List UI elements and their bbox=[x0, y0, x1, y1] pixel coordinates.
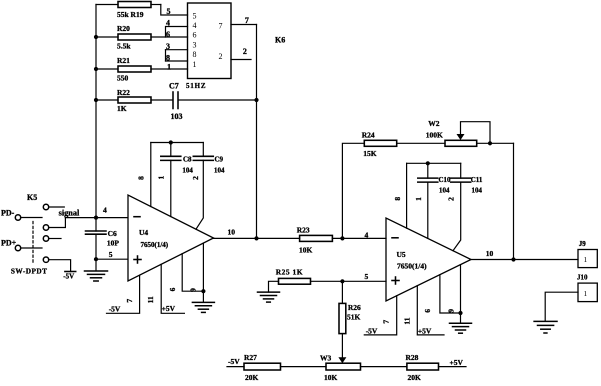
wire R19 to K6 pin5 bbox=[161, 5, 188, 16]
wire U5 pin6 bbox=[440, 275, 461, 313]
ground U4 bbox=[192, 302, 214, 312]
resistor R26 bbox=[339, 281, 361, 358]
op-amp U4 bbox=[128, 195, 214, 281]
ground U5 bbox=[450, 323, 472, 333]
dashed switch link bbox=[32, 222, 34, 264]
svg-text:+5V: +5V bbox=[418, 327, 432, 336]
svg-text:-5V: -5V bbox=[366, 327, 378, 336]
svg-text:1K: 1K bbox=[117, 104, 127, 113]
svg-text:R24: R24 bbox=[362, 130, 375, 139]
svg-text:J10: J10 bbox=[577, 274, 588, 282]
capacitor C7 bbox=[169, 82, 183, 122]
ground J10 bbox=[534, 321, 557, 333]
potentiometer W2 bbox=[426, 119, 514, 146]
svg-text:9: 9 bbox=[188, 288, 197, 292]
svg-text:C8: C8 bbox=[183, 156, 192, 164]
svg-text:2: 2 bbox=[447, 197, 456, 201]
svg-text:7650(1/4): 7650(1/4) bbox=[141, 241, 169, 249]
svg-text:8: 8 bbox=[193, 50, 197, 59]
svg-text:2: 2 bbox=[243, 47, 247, 56]
wire U5 pin7 to -5V bbox=[364, 296, 396, 336]
wire U5 output bbox=[471, 259, 578, 261]
svg-text:8: 8 bbox=[393, 197, 402, 201]
svg-text:1: 1 bbox=[414, 197, 423, 201]
svg-text:R23: R23 bbox=[297, 226, 310, 235]
node rail junction bbox=[169, 140, 173, 144]
switch contact c4 to -5V bbox=[43, 257, 75, 281]
node C7 junction bbox=[254, 98, 258, 102]
terminal PD- bbox=[1, 209, 42, 221]
svg-text:-5V: -5V bbox=[109, 305, 121, 314]
resistor R28 bbox=[361, 353, 467, 382]
svg-text:R28: R28 bbox=[406, 353, 419, 362]
svg-text:K5: K5 bbox=[27, 193, 37, 202]
svg-text:2: 2 bbox=[191, 176, 200, 180]
ground R25 bbox=[258, 281, 280, 302]
node pin6 pin9 junction bbox=[201, 289, 205, 293]
wire U4 pin7 to -5V bbox=[107, 275, 140, 313]
wire K6 pin3 to pin8 jog bbox=[165, 50, 167, 61]
wire signal to U4 inverting input bbox=[65, 217, 127, 219]
resistor R21 bbox=[96, 56, 188, 83]
wire U4 output bbox=[214, 237, 300, 239]
wire to U4 noninverting input bbox=[96, 258, 128, 260]
svg-text:104: 104 bbox=[182, 167, 193, 175]
svg-text:R21: R21 bbox=[117, 56, 130, 65]
switch contact c2 bbox=[43, 218, 65, 231]
svg-text:R25 1K: R25 1K bbox=[276, 267, 303, 276]
capacitor C9 bbox=[193, 143, 225, 230]
wiper arrow onto W3 bbox=[338, 357, 346, 363]
svg-text:104: 104 bbox=[472, 186, 483, 194]
svg-text:5.5k: 5.5k bbox=[117, 42, 131, 51]
svg-text:55k R19: 55k R19 bbox=[117, 10, 144, 19]
svg-text:4: 4 bbox=[365, 231, 369, 240]
svg-text:6: 6 bbox=[166, 30, 170, 39]
svg-text:5: 5 bbox=[167, 7, 171, 16]
svg-text:C6: C6 bbox=[108, 229, 117, 238]
svg-text:J9: J9 bbox=[579, 240, 587, 248]
svg-text:6: 6 bbox=[423, 309, 432, 313]
capacitor C6 bbox=[86, 229, 120, 248]
W2 wiper arrow bbox=[457, 134, 465, 140]
resistor R22 bbox=[96, 88, 172, 113]
connector J10 bbox=[577, 274, 597, 302]
svg-text:5: 5 bbox=[365, 272, 369, 281]
svg-text:5: 5 bbox=[109, 250, 113, 259]
svg-text:10P: 10P bbox=[107, 239, 120, 248]
wire left feedback bus vertical bbox=[95, 5, 97, 232]
svg-text:-5V: -5V bbox=[228, 357, 240, 366]
wire U5 pin9 bbox=[460, 265, 462, 324]
wire feedback up from R23 node bbox=[342, 143, 364, 238]
svg-text:8: 8 bbox=[136, 176, 145, 180]
svg-text:3: 3 bbox=[166, 42, 170, 51]
node rail junction bbox=[426, 161, 430, 165]
svg-text:W3: W3 bbox=[320, 354, 332, 363]
svg-text:R22: R22 bbox=[117, 88, 130, 97]
node pin6 pin9 junction bbox=[458, 311, 462, 315]
svg-text:5: 5 bbox=[193, 11, 197, 20]
svg-text:2: 2 bbox=[219, 52, 223, 61]
capacitor C11 bbox=[451, 163, 483, 250]
svg-text:PD+: PD+ bbox=[1, 239, 17, 248]
svg-text:100K: 100K bbox=[426, 130, 443, 139]
svg-text:104: 104 bbox=[439, 186, 450, 194]
svg-text:C9: C9 bbox=[215, 156, 224, 164]
node W2 junction bbox=[488, 141, 492, 145]
svg-text:-5V: -5V bbox=[63, 273, 74, 281]
svg-text:7: 7 bbox=[125, 299, 134, 303]
svg-text:C10: C10 bbox=[439, 176, 452, 184]
wire U5 pin11 to +5V bbox=[417, 286, 444, 336]
svg-text:103: 103 bbox=[171, 112, 183, 121]
svg-text:51K: 51K bbox=[347, 313, 361, 322]
svg-text:+5V: +5V bbox=[162, 304, 176, 313]
svg-text:10K: 10K bbox=[299, 246, 313, 255]
node R21 bus junction bbox=[94, 67, 98, 71]
relay K6 box bbox=[188, 3, 286, 79]
svg-text:6: 6 bbox=[168, 287, 177, 291]
svg-text:1: 1 bbox=[584, 255, 588, 264]
wire feedback down to output bbox=[513, 143, 515, 259]
op-amp U5 bbox=[386, 218, 471, 301]
wire W2 wiper to right end bbox=[461, 122, 491, 144]
resistor R25 bbox=[276, 267, 386, 284]
resistor R24 bbox=[362, 130, 445, 158]
ground under C6 bbox=[85, 271, 108, 281]
svg-text:7: 7 bbox=[381, 320, 390, 324]
svg-text:R20: R20 bbox=[117, 24, 130, 33]
svg-text:3: 3 bbox=[193, 40, 197, 49]
svg-text:signal: signal bbox=[59, 208, 80, 217]
connector J9 bbox=[578, 240, 597, 268]
svg-text:SW-DPDT: SW-DPDT bbox=[11, 267, 48, 276]
wire U4 pin6 bbox=[182, 254, 203, 292]
wire J10 to ground bbox=[545, 292, 578, 321]
switch contact c3 bbox=[43, 236, 61, 241]
wire C8 top rail bbox=[151, 142, 204, 144]
wire K6 pin4 stub bbox=[166, 27, 188, 38]
node R24 branch junction bbox=[340, 236, 344, 240]
node R22 bus junction bbox=[94, 98, 98, 102]
svg-text:104: 104 bbox=[214, 167, 225, 175]
wire K6 pin8 stub bbox=[166, 60, 188, 62]
switch contact c1 bbox=[43, 204, 64, 209]
wire U4 pin9 bbox=[202, 243, 204, 302]
node output feedback junction bbox=[511, 257, 515, 261]
node noninverting junction bbox=[94, 257, 98, 261]
pin 2 stub bbox=[231, 59, 251, 61]
node output K6 junction bbox=[254, 236, 258, 240]
resistor R19 bbox=[96, 2, 161, 20]
resistor R20 bbox=[96, 24, 188, 51]
wire U4 pin8 bbox=[150, 143, 152, 207]
svg-text:1: 1 bbox=[193, 60, 197, 69]
capacitor C8 bbox=[161, 143, 194, 217]
svg-text:11: 11 bbox=[402, 317, 411, 324]
svg-text:+5V: +5V bbox=[450, 358, 464, 367]
wire U4 pin11 to +5V bbox=[161, 264, 184, 313]
svg-text:550: 550 bbox=[117, 74, 129, 83]
svg-text:6: 6 bbox=[193, 31, 197, 40]
svg-text:R27: R27 bbox=[244, 353, 257, 362]
svg-text:1: 1 bbox=[584, 289, 588, 298]
svg-text:9: 9 bbox=[447, 309, 456, 313]
node R26 branch junction bbox=[340, 279, 344, 283]
svg-text:C11: C11 bbox=[471, 176, 483, 184]
svg-text:7: 7 bbox=[245, 16, 249, 25]
svg-text:51HZ: 51HZ bbox=[186, 82, 206, 90]
node signal bus junction bbox=[94, 216, 98, 220]
potentiometer W3 bbox=[320, 354, 361, 383]
wire K6 pin7 down to U4 output node bbox=[256, 25, 258, 239]
svg-text:PD-: PD- bbox=[1, 209, 15, 218]
svg-text:20K: 20K bbox=[408, 373, 422, 382]
wire C7 to K6 feedback vertical bbox=[179, 99, 257, 101]
svg-text:W2: W2 bbox=[428, 119, 440, 128]
svg-text:4: 4 bbox=[166, 18, 170, 27]
svg-text:10: 10 bbox=[486, 249, 494, 258]
svg-text:20K: 20K bbox=[245, 373, 259, 382]
wire C6 bottom to ground bbox=[95, 234, 97, 271]
svg-text:1: 1 bbox=[157, 175, 166, 179]
svg-text:7650(1/4): 7650(1/4) bbox=[397, 262, 427, 271]
svg-text:1: 1 bbox=[167, 63, 171, 72]
resistor R27 bbox=[227, 353, 326, 382]
svg-text:4: 4 bbox=[193, 21, 197, 30]
pin 7 stub bbox=[231, 24, 257, 26]
svg-text:U4: U4 bbox=[139, 228, 148, 237]
terminal PD+ bbox=[1, 239, 42, 251]
svg-text:10K: 10K bbox=[324, 373, 338, 382]
svg-text:K6: K6 bbox=[275, 36, 285, 45]
resistor R23 bbox=[297, 226, 386, 255]
node R20 bus junction bbox=[94, 35, 98, 39]
capacitor C10 bbox=[418, 163, 451, 238]
wire K6 pin3 stub bbox=[166, 49, 188, 51]
K6 inner pin numbers bbox=[193, 11, 223, 69]
wire C10 top rail bbox=[407, 162, 461, 164]
svg-text:11: 11 bbox=[146, 296, 155, 303]
wire U5 pin8 bbox=[406, 163, 408, 228]
svg-text:R26: R26 bbox=[348, 303, 361, 312]
svg-text:10: 10 bbox=[228, 228, 236, 237]
svg-text:U5: U5 bbox=[397, 250, 406, 259]
svg-text:C7: C7 bbox=[169, 82, 179, 91]
svg-text:7: 7 bbox=[219, 22, 223, 31]
svg-text:8: 8 bbox=[166, 54, 170, 63]
svg-text:4: 4 bbox=[103, 206, 107, 215]
svg-text:15K: 15K bbox=[363, 149, 377, 158]
